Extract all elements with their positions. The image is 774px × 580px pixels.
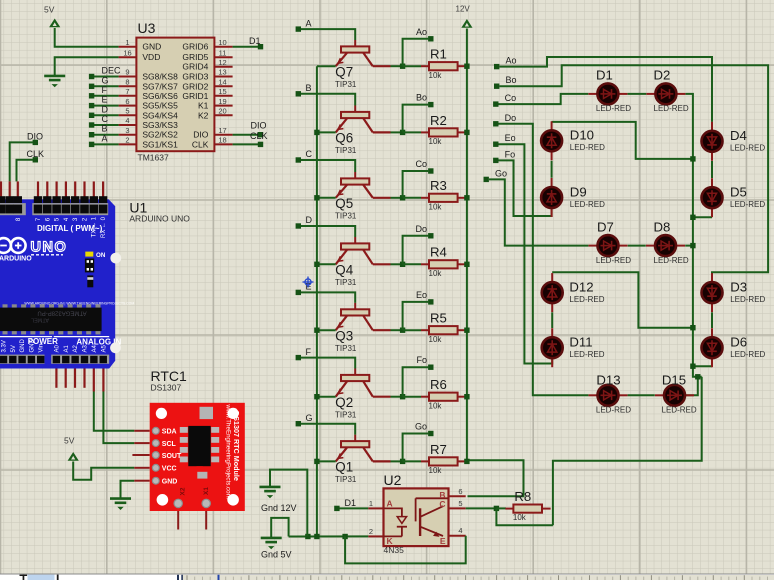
junction emitter rail Q2 (314, 394, 319, 399)
Arduino bottom pin leads (56, 369, 103, 392)
svg-text:11: 11 (219, 48, 227, 57)
junction rail D10 path (690, 156, 695, 161)
svg-text:SG8/KS8: SG8/KS8 (142, 72, 178, 82)
svg-text:Fo: Fo (416, 355, 427, 365)
svg-text:CLK: CLK (27, 149, 45, 159)
junction R6 to 12V rail (464, 394, 469, 399)
svg-text:SG2/KS2: SG2/KS2 (142, 130, 178, 140)
transistor Q7 TIP31 (335, 40, 391, 89)
svg-text:10k: 10k (513, 513, 527, 522)
U3 pin 1 lead (119, 46, 137, 48)
svg-text:SG7/KS7: SG7/KS7 (142, 81, 178, 91)
wire junction to R2 (403, 131, 421, 133)
wire Gnd5V path (271, 518, 288, 538)
svg-text:A: A (306, 18, 312, 28)
wire Q4 collector to R4 (391, 263, 403, 265)
svg-text:DIO: DIO (251, 121, 267, 131)
RTC board body (150, 403, 245, 511)
LED D15 (655, 373, 697, 415)
wire Gnd12V path (270, 470, 307, 537)
resistor R1 10k (421, 47, 466, 80)
junction rail D8 (690, 243, 695, 248)
wire D15 to rail (686, 377, 698, 396)
svg-text:LED-RED: LED-RED (730, 143, 765, 152)
wire Bo to D3 top (500, 65, 769, 281)
svg-text:K2: K2 (198, 110, 209, 120)
ground RTC (110, 499, 131, 510)
terminal B (base net) (296, 91, 301, 96)
LED D5 (702, 178, 766, 217)
wire net G to U3 (92, 85, 119, 87)
resistor R7 10k (421, 442, 466, 475)
svg-text:VDD: VDD (142, 52, 160, 62)
transistor Q1 TIP31 (335, 435, 391, 485)
RTC IC DS1307 chip (180, 427, 188, 433)
svg-text:Q1: Q1 (335, 460, 353, 475)
terminal G (base net) (296, 421, 301, 426)
terminal A (89, 142, 94, 147)
terminal B (89, 132, 94, 137)
svg-text:D12: D12 (569, 279, 593, 294)
wire collector to terminal Bo (403, 105, 429, 133)
terminal Bo LED side (494, 84, 499, 89)
terminal Do LED side (493, 121, 498, 126)
wire D1 to U2 pin1 (340, 507, 369, 509)
terminal Fo (428, 365, 433, 370)
wire Q6 emitter to rail (317, 131, 336, 133)
svg-text:A1: A1 (64, 344, 70, 352)
resistor R6 10k (421, 377, 466, 410)
svg-text:TIP31: TIP31 (335, 411, 357, 420)
junction K row emitter rail (314, 534, 319, 539)
U3 pin names and numbers (123, 38, 226, 149)
LED D6 (702, 328, 766, 367)
svg-text:VCC: VCC (162, 466, 177, 473)
wire Q3 collector to R5 (391, 329, 403, 331)
svg-text:D: D (102, 104, 109, 114)
terminal D (base net) (296, 223, 301, 228)
wire D10 top to rail (552, 122, 693, 159)
terminal Co LED side (493, 101, 498, 106)
svg-text:17: 17 (218, 126, 226, 135)
svg-text:4: 4 (458, 526, 462, 535)
wire Co to D1 (499, 94, 589, 104)
svg-text:Ao: Ao (506, 56, 517, 66)
terminal D1 net (258, 44, 263, 49)
svg-text:LED-RED: LED-RED (654, 256, 689, 265)
wire U2 pin4 to ground loop (345, 536, 466, 564)
terminal Go (428, 431, 433, 436)
svg-text:9: 9 (125, 68, 129, 77)
svg-text:GRID6: GRID6 (182, 42, 208, 52)
svg-text:4N35: 4N35 (384, 545, 405, 555)
transistor Q3 TIP31 (335, 303, 391, 353)
resistor R4 10k (421, 245, 466, 278)
U2 pin 2 lead (368, 535, 383, 537)
terminal F (base net) (296, 355, 301, 360)
svg-text:5: 5 (125, 107, 129, 116)
U2 pin 1 lead (368, 507, 383, 509)
wire collector to terminal Eo (403, 302, 429, 330)
junction collector Q5 (400, 195, 405, 200)
resistor R5 10k (421, 311, 466, 344)
terminal Bo (428, 102, 433, 107)
wire D6 bottom to rail (693, 365, 712, 367)
svg-text:A4: A4 (92, 344, 98, 352)
svg-text:G: G (102, 75, 109, 85)
svg-text:DIO: DIO (27, 131, 43, 141)
svg-text:10k: 10k (429, 335, 443, 344)
RTC pin pads (152, 427, 159, 434)
transistor Q6 TIP31 (335, 106, 391, 156)
LED D11 (542, 328, 605, 367)
svg-text:UNO: UNO (31, 240, 68, 256)
svg-text:Gnd 5V: Gnd 5V (261, 550, 292, 560)
terminal DEC (89, 74, 94, 79)
svg-text:Go: Go (495, 168, 507, 178)
svg-text:TIP31: TIP31 (335, 278, 357, 287)
wire D7 D8 link (628, 245, 646, 247)
U2 pin 6 lead (449, 495, 466, 497)
junction emitter rail Q3 (314, 328, 319, 333)
wire Q4 emitter to rail (317, 263, 336, 265)
svg-text:X2: X2 (180, 487, 187, 495)
wire Q1 collector to R7 (391, 460, 403, 462)
svg-text:2: 2 (369, 527, 373, 536)
terminal Ao LED side (494, 64, 499, 69)
svg-text:D1: D1 (596, 68, 613, 83)
LED D10 (541, 121, 605, 160)
svg-text:TIP31: TIP31 (335, 212, 357, 221)
svg-text:D1: D1 (249, 36, 261, 46)
svg-text:LED-RED: LED-RED (569, 350, 604, 359)
RTC1 DS1307 module board (132, 403, 244, 530)
svg-text:Do: Do (415, 224, 427, 234)
svg-text:DIO: DIO (193, 130, 209, 140)
wire D2 to LED rail (686, 94, 702, 377)
Arduino UNO U1 board (0, 181, 134, 368)
svg-text:ATMEL: ATMEL (31, 317, 49, 323)
terminal D1 near U2 (334, 506, 339, 511)
svg-text:Gnd 12V: Gnd 12V (261, 503, 297, 513)
svg-text:LED-RED: LED-RED (569, 295, 604, 304)
svg-text:12: 12 (218, 58, 226, 67)
junction K row E loop (342, 534, 347, 539)
wire E to Q3 base (301, 292, 355, 303)
svg-text:D11: D11 (569, 334, 592, 349)
wire R8 right rail (553, 377, 702, 526)
wire Q2 collector to R6 (391, 396, 403, 398)
wire ground to U3 pin16 (55, 57, 119, 76)
svg-text:LED-RED: LED-RED (596, 256, 631, 265)
svg-text:R8: R8 (514, 489, 531, 504)
terminal Fo LED side (493, 158, 498, 163)
svg-text:B: B (306, 83, 312, 93)
transistor Q5 TIP31 (335, 172, 391, 221)
svg-text:20: 20 (218, 107, 226, 116)
svg-text:D8: D8 (654, 219, 671, 234)
svg-text:TIP31: TIP31 (335, 475, 357, 484)
svg-text:5V: 5V (44, 5, 55, 15)
svg-text:3: 3 (125, 126, 129, 135)
svg-text:CLK: CLK (250, 131, 268, 141)
terminal C (base net) (296, 157, 301, 162)
LED D2 (646, 68, 688, 114)
svg-text:SG1/KS1: SG1/KS1 (142, 139, 178, 149)
svg-text:ON: ON (96, 252, 106, 259)
wire D to Q4 base (301, 226, 355, 237)
bottom ruler ticks (187, 575, 768, 580)
svg-text:D1: D1 (345, 498, 357, 508)
LED D7 (589, 219, 632, 265)
U3 pin 16 lead (119, 56, 137, 58)
svg-text:10k: 10k (429, 466, 443, 475)
LED D4 (702, 122, 766, 161)
svg-text:TIP31: TIP31 (335, 344, 357, 353)
svg-text:8: 8 (125, 78, 129, 87)
svg-text:B: B (102, 124, 108, 134)
svg-text:GND: GND (29, 339, 35, 353)
junction R7 to 12V rail (464, 459, 469, 464)
svg-text:DS1307 RTC Module: DS1307 RTC Module (232, 411, 241, 481)
svg-text:GRID3: GRID3 (182, 72, 208, 82)
ground Gnd 12V (260, 487, 281, 498)
svg-text:R1: R1 (430, 47, 447, 62)
wire 5V to U3 pin1 (55, 28, 119, 47)
wire RTC GND to ground (121, 481, 135, 499)
svg-text:D10: D10 (570, 128, 594, 143)
svg-text:U2: U2 (384, 472, 402, 488)
wire R8 left link (496, 507, 506, 509)
svg-text:D15: D15 (662, 373, 686, 388)
ground Gnd 5V (261, 538, 282, 549)
svg-text:D4: D4 (730, 128, 747, 143)
svg-text:R6: R6 (430, 377, 447, 392)
svg-text:Q2: Q2 (335, 395, 353, 410)
ground top-left (44, 76, 65, 87)
svg-text:F: F (306, 347, 312, 357)
svg-text:F: F (102, 85, 108, 95)
svg-text:A: A (102, 133, 108, 143)
wire SCL (103, 392, 134, 444)
svg-text:A2: A2 (73, 344, 79, 352)
svg-text:SG4/KS4: SG4/KS4 (142, 110, 178, 120)
svg-text:LED-RED: LED-RED (596, 406, 631, 415)
wire junction to R4 (403, 263, 421, 265)
wire CLK to Arduino pin (17, 160, 34, 182)
svg-text:D6: D6 (730, 334, 747, 349)
wire B to Q6 base (301, 94, 355, 106)
svg-text:2: 2 (125, 136, 129, 145)
junction collector Q1 (400, 459, 405, 464)
terminal Co (428, 168, 433, 173)
IC U3 TM1637 body (136, 38, 214, 152)
junction emitter rail Q4 (314, 262, 319, 267)
svg-text:SOUT: SOUT (162, 453, 182, 460)
wire Q6 collector to R2 (391, 131, 403, 133)
svg-text:E: E (102, 95, 108, 105)
terminal F (89, 93, 94, 98)
U3 right pin leads (214, 47, 232, 145)
wire A to Q7 base (301, 29, 355, 40)
svg-text:CLK: CLK (192, 139, 209, 149)
svg-text:TIP31: TIP31 (335, 146, 357, 155)
junction emitter rail Q1 (314, 459, 319, 464)
junction R1 to 12V rail (464, 64, 469, 69)
junction emitter rail Q5 (314, 195, 319, 200)
terminal CLK left (33, 157, 38, 162)
wire F to Q2 base (301, 358, 355, 369)
svg-text:LED-RED: LED-RED (654, 104, 689, 113)
terminal CLK right (258, 142, 263, 147)
svg-text:Ao: Ao (416, 27, 427, 37)
svg-text:Q4: Q4 (335, 263, 353, 278)
wire D5 bottom to rail (693, 216, 712, 218)
terminal D (89, 113, 94, 118)
svg-text:GRID4: GRID4 (182, 62, 208, 72)
wire Q5 emitter to rail (317, 197, 336, 199)
svg-text:Bo: Bo (506, 75, 517, 85)
power 12V symbol (461, 19, 472, 28)
wire D4 D5 link (711, 161, 713, 178)
wire net DEC to U3 (92, 76, 119, 78)
svg-text:D: D (306, 215, 313, 225)
svg-text:10k: 10k (429, 401, 443, 410)
emitter rail wire (316, 66, 318, 536)
svg-text:GRID5: GRID5 (182, 52, 208, 62)
svg-text:7: 7 (125, 87, 129, 96)
svg-text:19: 19 (218, 97, 226, 106)
wire net B to U3 (92, 134, 119, 136)
wire Eo to D11 bottom (499, 144, 553, 363)
wire Q7 emitter to rail (317, 65, 336, 67)
svg-text:5: 5 (458, 499, 462, 508)
svg-text:5V: 5V (11, 345, 17, 352)
svg-text:U3: U3 (138, 20, 156, 36)
svg-text:D13: D13 (596, 373, 620, 388)
terminal C (89, 122, 94, 127)
wire U2 pin5 to R8 (466, 507, 494, 509)
svg-text:6: 6 (458, 487, 462, 496)
wire net D to U3 (92, 114, 119, 116)
svg-text:10k: 10k (429, 71, 443, 80)
junction collector Q3 (400, 328, 405, 333)
wire net C to U3 (92, 124, 119, 126)
svg-text:C: C (439, 499, 445, 509)
wire Q5 collector to R3 (391, 197, 403, 199)
svg-text:ARDUINO: ARDUINO (0, 256, 32, 263)
wire Q3 emitter to rail (317, 329, 336, 331)
svg-text:10k: 10k (429, 269, 443, 278)
wire collector to terminal Ao (403, 39, 429, 66)
svg-text:Eo: Eo (416, 290, 427, 300)
junction R4 to 12V rail (464, 262, 469, 267)
svg-text:K1: K1 (198, 101, 209, 111)
svg-text:X1: X1 (203, 487, 210, 495)
svg-text:R2: R2 (430, 113, 447, 128)
svg-text:D5: D5 (730, 184, 747, 199)
svg-text:R7: R7 (430, 442, 447, 457)
wire 12V rail (467, 29, 524, 497)
svg-text:4: 4 (125, 116, 129, 125)
svg-text:10: 10 (218, 38, 226, 47)
junction rail D15 (695, 374, 700, 379)
wire junction to R6 (403, 396, 421, 398)
wire Do to D13 (499, 124, 589, 396)
power 5V symbol top-left (49, 19, 60, 28)
svg-text:DIGITAL ( PWM~): DIGITAL ( PWM~) (37, 224, 103, 233)
svg-text:Co: Co (505, 93, 517, 103)
svg-text:Go: Go (415, 422, 427, 432)
wire Q2 emitter to rail (317, 396, 336, 398)
svg-text:GRID1: GRID1 (182, 91, 208, 101)
svg-text:Q6: Q6 (335, 131, 353, 146)
terminal DIO right (258, 132, 263, 137)
resistor R2 10k (421, 113, 466, 146)
svg-text:18: 18 (218, 136, 226, 145)
svg-text:www.TheEngineeringProjects.com: www.TheEngineeringProjects.com (225, 404, 232, 499)
U3 left pin leads 9..2 (119, 77, 137, 145)
wire junction to R1 (403, 65, 421, 67)
U2 pin 4 lead (449, 535, 466, 537)
svg-text:E: E (440, 536, 446, 546)
junction rail D5 path (690, 215, 695, 220)
wire U3 pin18 to net CLK (233, 143, 258, 145)
svg-text:SG5/KS5: SG5/KS5 (142, 101, 178, 111)
svg-text:C: C (102, 114, 109, 124)
wire U3 pin10 to net D1 (233, 46, 258, 48)
wire D13 D15 link (628, 394, 655, 396)
svg-text:Do: Do (505, 113, 517, 123)
transistor Q4 TIP31 (335, 237, 391, 287)
svg-text:R5: R5 (430, 311, 447, 326)
terminal E (89, 103, 94, 108)
svg-text:Q7: Q7 (335, 64, 353, 79)
svg-text:D7: D7 (597, 219, 614, 234)
resistor R3 10k (421, 178, 466, 211)
wire net F to U3 (92, 95, 119, 97)
svg-text:LED-RED: LED-RED (730, 200, 765, 209)
wire Go to D7 (489, 179, 588, 245)
power 5V symbol bottom (68, 452, 79, 461)
svg-text:TM1637: TM1637 (138, 153, 169, 163)
wire junction to R3 (403, 197, 421, 199)
svg-text:SG3/KS3: SG3/KS3 (142, 120, 178, 130)
svg-text:Vin: Vin (39, 344, 45, 353)
wire DIO to Arduino pin (10, 142, 33, 181)
terminal Eo LED side (493, 142, 498, 147)
window bottom strip (0, 574, 774, 580)
svg-text:GND: GND (20, 339, 26, 353)
junction rail D12 path (690, 325, 695, 330)
svg-text:ATMEGA328P-PU: ATMEGA328P-PU (37, 310, 86, 316)
LED D3 (702, 273, 766, 312)
junction collector Q4 (400, 262, 405, 267)
svg-text:G: G (306, 413, 313, 423)
wire R8 loop bottom (496, 508, 553, 525)
svg-text:Co: Co (415, 159, 427, 169)
svg-text:Bo: Bo (416, 93, 427, 103)
svg-text:D3: D3 (730, 279, 747, 294)
terminal DIO left (33, 140, 38, 145)
junction rail D6 (690, 364, 695, 369)
junction R3 to 12V rail (464, 195, 469, 200)
svg-text:15: 15 (218, 87, 226, 96)
svg-text:10k: 10k (429, 137, 443, 146)
svg-text:C: C (306, 149, 313, 159)
terminal G (89, 84, 94, 89)
svg-text:GND: GND (142, 42, 161, 52)
